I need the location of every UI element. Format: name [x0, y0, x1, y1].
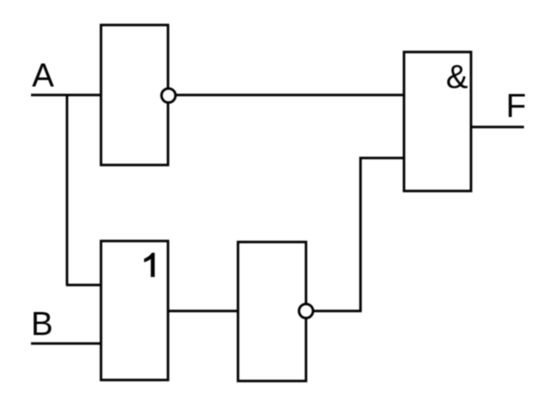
node A branch junction	[66, 95, 69, 285]
wire U4 output F	[471, 126, 524, 129]
svg-text:F: F	[506, 87, 526, 124]
svg-text:B: B	[31, 305, 53, 342]
bubble U3 output	[299, 304, 313, 318]
inverter U1 (NOT gate body)	[101, 25, 168, 165]
AND gate U4 body	[404, 52, 471, 191]
label 1 (OR gate)	[144, 253, 155, 277]
svg-text:A: A	[32, 57, 54, 94]
inverter U3 (NOT gate body)	[238, 242, 306, 381]
OR gate U2 body	[101, 241, 168, 380]
wire A input	[31, 94, 101, 97]
bubble U1 output	[162, 89, 176, 103]
wire U1 output to U4 input 1	[176, 94, 405, 97]
svg-text:&: &	[446, 58, 468, 95]
wire B input	[31, 342, 101, 345]
wire U3 output to U4 input 2	[313, 158, 404, 311]
wire A branch to OR input	[66, 284, 101, 287]
wire U2 output to U3 input	[168, 310, 238, 313]
